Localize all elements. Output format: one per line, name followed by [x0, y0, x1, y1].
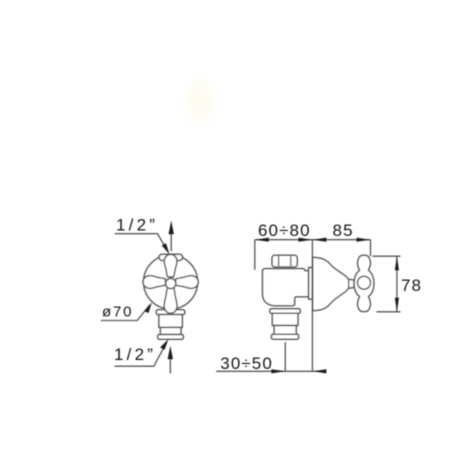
leader line top label	[115, 234, 168, 252]
arrow 78 bottom	[395, 298, 399, 312]
handle hub circle (side view)	[358, 276, 371, 289]
dimension line 78	[396, 256, 398, 312]
flow arrow top shaft	[170, 234, 172, 251]
inlet fitting top flange (front view)	[156, 310, 184, 315]
svg-text:1/2”: 1/2”	[116, 216, 158, 235]
svg-text:ø70: ø70	[102, 304, 133, 321]
watermark blob	[187, 79, 213, 125]
bottom dimension line	[216, 370, 322, 372]
leader arrowhead diameter 70	[144, 302, 152, 313]
extension line handle bottom	[377, 311, 401, 313]
inlet fitting lower body (front view)	[160, 327, 181, 334]
svg-text:1/2”: 1/2”	[114, 345, 156, 364]
outlet fitting top flange (side view)	[270, 309, 301, 314]
outlet fitting lower body (side view)	[274, 326, 296, 335]
flow arrow top head	[169, 221, 174, 235]
arrow 30-50 left	[271, 369, 285, 373]
leader arrowhead bottom label	[160, 339, 168, 350]
svg-text:60÷80: 60÷80	[258, 221, 311, 240]
leader line diameter 70	[101, 305, 150, 321]
arrow 60-80 left	[255, 238, 269, 242]
bonnet nut (side view)	[272, 255, 297, 267]
handwheel top ears bar	[159, 254, 183, 260]
flow arrow bottom shaft	[169, 359, 171, 373]
outlet fitting upper body (side view)	[272, 313, 298, 325]
valve body (side view)	[263, 269, 309, 306]
flow arrow bottom head	[168, 346, 173, 359]
extension line right (handle face)	[370, 240, 372, 257]
top dimension line	[255, 239, 371, 241]
cross handle (side view)	[354, 255, 374, 311]
cross handle spoke top	[164, 254, 177, 277]
cross handle spoke bottom (long)	[164, 287, 177, 313]
nut facet line left	[278, 256, 280, 266]
arrow 60-80 right	[298, 238, 312, 242]
nut facet line right	[290, 256, 292, 266]
arrow 78 top	[395, 256, 399, 270]
extension line wall plane (long)	[311, 240, 313, 372]
extension line handle top	[373, 255, 401, 257]
escutcheon bell	[313, 257, 354, 310]
leader arrowhead top label	[162, 243, 170, 254]
extension line outlet centerline	[284, 342, 286, 371]
inlet fitting bottom flange (front view)	[158, 335, 184, 340]
cross handle spoke right	[176, 276, 199, 289]
svg-text:85: 85	[333, 221, 354, 240]
extension line left (wall offset)	[254, 240, 256, 270]
cross handle spoke left	[143, 276, 166, 289]
arrow 85 left	[312, 238, 326, 242]
handwheel outer circle	[144, 255, 198, 309]
arrow 85 right	[357, 238, 371, 242]
handwheel hub circle	[166, 278, 176, 288]
wall mounting plate	[309, 268, 313, 300]
svg-text:78: 78	[401, 276, 422, 295]
arrow 30-50 right	[312, 369, 326, 373]
inlet fitting upper body (front view)	[159, 315, 182, 328]
outlet fitting bottom flange (side view)	[272, 334, 299, 339]
leader line bottom label	[115, 342, 167, 366]
svg-text:30÷50: 30÷50	[220, 354, 273, 373]
bell neck seam	[348, 280, 350, 288]
